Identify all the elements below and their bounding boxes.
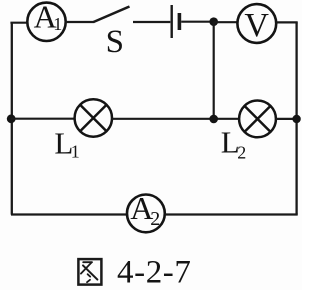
wire middle vertical branch xyxy=(213,22,215,119)
battery long plate (+) xyxy=(170,5,172,38)
lamp L2 xyxy=(239,101,276,138)
node junction dot right middle xyxy=(292,115,300,123)
label L1 xyxy=(54,126,79,162)
svg-text:4-2-7: 4-2-7 xyxy=(117,254,191,290)
wire switch contact to battery xyxy=(133,21,170,23)
wire middle row L2 to right xyxy=(276,118,297,120)
wire battery to node xyxy=(181,21,214,23)
caption hanzi TU (drawn glyph) xyxy=(78,259,101,285)
wire middle row L1 to L2 xyxy=(112,118,240,120)
wire middle row left to L1 xyxy=(11,118,75,120)
svg-text:S: S xyxy=(106,24,124,60)
svg-text:1: 1 xyxy=(53,14,62,34)
battery short plate (-) xyxy=(178,13,182,30)
wire left vertical xyxy=(11,23,13,215)
lamp L1 xyxy=(75,99,112,136)
switch S blade xyxy=(94,7,130,23)
wire A1 to switch hinge xyxy=(66,21,95,23)
wire bottom left xyxy=(11,213,128,215)
svg-text:1: 1 xyxy=(71,142,80,162)
wire right vertical xyxy=(295,22,297,214)
wire top-left horizontal to A1 xyxy=(10,22,28,24)
voltmeter V xyxy=(237,4,276,44)
wire node to voltmeter xyxy=(214,21,238,23)
ammeter A2 xyxy=(127,190,165,232)
node junction dot middle xyxy=(209,115,218,124)
ammeter A1 xyxy=(27,0,65,41)
node junction dot top xyxy=(209,17,218,26)
svg-text:2: 2 xyxy=(150,208,160,230)
node junction dot left middle xyxy=(7,114,16,123)
wire voltmeter to right corner xyxy=(276,21,298,23)
svg-text:2: 2 xyxy=(237,143,246,163)
label L2 xyxy=(221,124,246,162)
wire bottom right xyxy=(165,213,298,215)
svg-text:V: V xyxy=(244,7,269,44)
